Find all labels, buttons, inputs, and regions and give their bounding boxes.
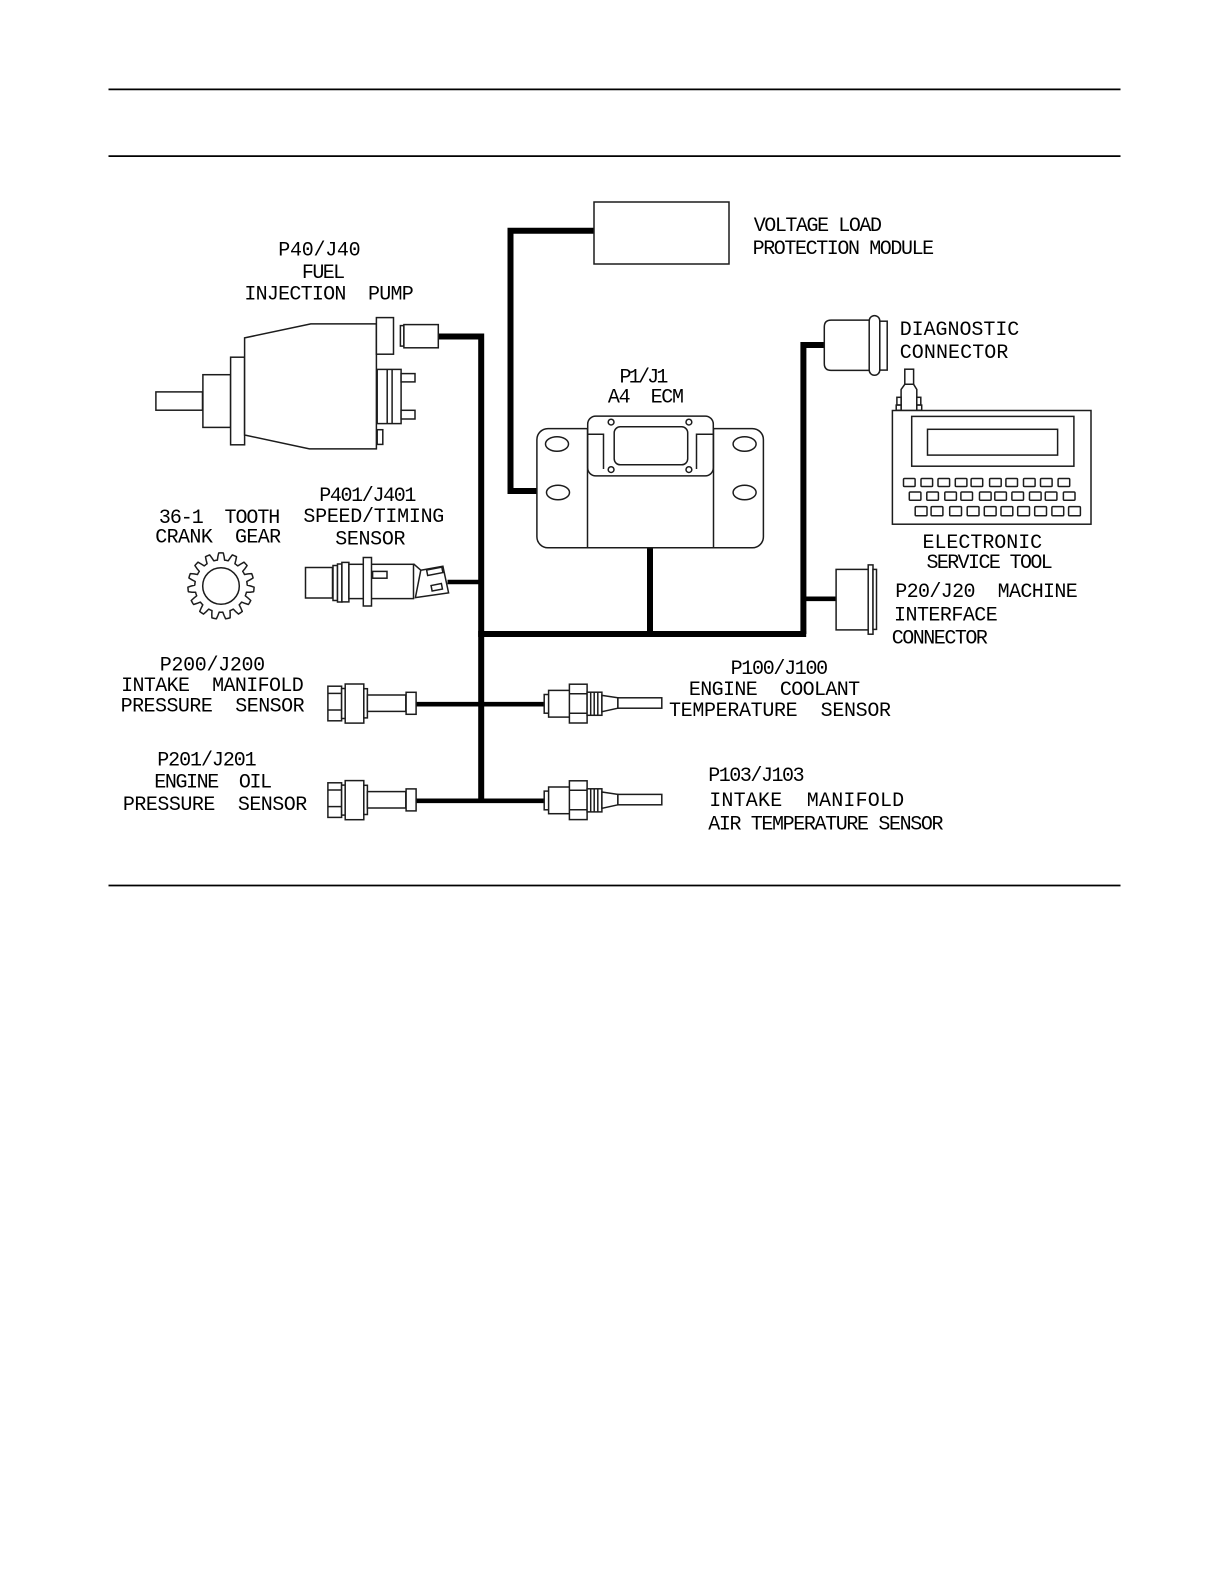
svg-text:P201/J201: P201/J201 [157,749,257,772]
svg-text:TEMPERATURE SENSOR: TEMPERATURE SENSOR [669,700,891,723]
svg-text:PROTECTION MODULE: PROTECTION MODULE [753,238,935,261]
svg-text:DIAGNOSTIC: DIAGNOSTIC [900,319,1020,342]
svg-text:PRESSURE SENSOR: PRESSURE SENSOR [121,696,305,719]
P100/J100 engine coolant temperature sensor icon [544,684,662,723]
P103/J103 intake manifold air temperature sensor icon [544,781,662,820]
electronic service tool [892,369,1091,524]
svg-text:SERVICE TOOL: SERVICE TOOL [927,552,1053,575]
P201/J201 engine oil pressure sensor icon [328,781,416,820]
ECM P1/J1 body [537,416,764,548]
svg-text:AIR TEMPERATURE SENSOR: AIR TEMPERATURE SENSOR [708,813,943,836]
bottom rule [109,885,1121,887]
top rule 1 [109,88,1121,90]
wire: main harness trunk (left vertical) [478,334,484,801]
P20/J20 machine interface connector [836,565,876,634]
svg-text:CONNECTOR: CONNECTOR [900,342,1009,365]
svg-text:A4 ECM: A4 ECM [608,387,684,410]
svg-text:SENSOR: SENSOR [335,529,405,552]
wire: harness bus (horizontal) [478,631,806,637]
diagnostic connector [824,316,887,376]
36-1 tooth crank gear [188,553,254,619]
P401/J401 speed/timing sensor [306,558,449,607]
svg-text:P40/J40: P40/J40 [278,240,361,263]
wire: P20/J20 connector stub [806,596,837,601]
svg-text:INTAKE MANIFOLD: INTAKE MANIFOLD [709,790,904,813]
svg-text:VOLTAGE LOAD: VOLTAGE LOAD [754,215,882,238]
svg-text:P100/J100: P100/J100 [731,658,829,681]
svg-text:PRESSURE SENSOR: PRESSURE SENSOR [123,794,307,817]
svg-text:ENGINE COOLANT: ENGINE COOLANT [689,679,860,702]
wire: speed/timing sensor to trunk [448,580,482,585]
svg-text:INJECTION PUMP: INJECTION PUMP [244,284,413,307]
svg-text:P20/J20 MACHINE: P20/J20 MACHINE [895,581,1078,604]
svg-text:SPEED/TIMING: SPEED/TIMING [303,506,444,529]
voltage load protection module box [594,202,729,264]
svg-text:P401/J401: P401/J401 [319,485,416,508]
P200/J200 intake manifold pressure sensor icon [328,684,416,723]
wire: diagnostic connector trunk (right vertical) [803,345,824,634]
wire: ECM connector to harness bus [647,476,653,634]
svg-text:P103/J103: P103/J103 [708,765,804,788]
wire: pressure/coolant sensor row [416,702,544,707]
svg-text:CONNECTOR: CONNECTOR [892,627,988,650]
svg-text:FUEL: FUEL [302,262,345,285]
svg-text:CRANK GEAR: CRANK GEAR [155,527,281,550]
top rule 2 [109,155,1121,157]
wire: voltage module to ECM [511,231,595,491]
svg-text:INTERFACE: INTERFACE [894,604,998,627]
svg-text:P200/J200: P200/J200 [160,654,266,677]
wire: fuel pump to harness trunk [438,334,481,340]
svg-text:ENGINE OIL: ENGINE OIL [154,772,272,795]
wire: oil pressure / air temperature sensor row [416,798,544,803]
fuel injection pump P40/J40 [156,318,438,449]
